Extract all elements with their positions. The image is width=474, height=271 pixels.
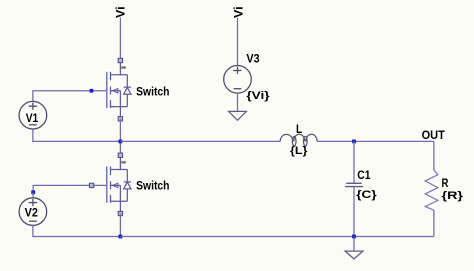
svg-text:R: R xyxy=(442,176,449,190)
ground under V3 xyxy=(229,111,247,120)
label M2 tiny instance name xyxy=(121,161,126,163)
junction on gate1 wire xyxy=(90,89,94,93)
svg-text:V1: V1 xyxy=(26,111,39,125)
pin box M2 drain xyxy=(118,153,122,157)
junction at bottom rail under C1 xyxy=(352,235,356,239)
wire: switch node to inductor xyxy=(120,140,280,142)
wire: inductor to OUT corner xyxy=(317,140,434,142)
pin box M1 drain xyxy=(118,58,122,62)
junction at C1 top node xyxy=(352,140,356,144)
pin box M1 source xyxy=(118,117,122,121)
wire: OUT node down from C1 junction xyxy=(353,141,355,183)
svg-text:{Vi}: {Vi} xyxy=(246,90,270,102)
svg-text:Vi: Vi xyxy=(231,6,245,18)
wire: V2 minus down to bottom rail xyxy=(33,225,121,236)
svg-text:{L}: {L} xyxy=(290,145,308,157)
wire: V2 gate wire xyxy=(33,185,107,192)
wire: bottom rail xyxy=(120,236,434,238)
wire: V1 gate wire xyxy=(33,91,107,102)
transistor M1 (Switch, top NMOS with body diode) xyxy=(107,61,131,119)
junction at V2 plus pin xyxy=(31,190,35,194)
svg-text:{C}: {C} xyxy=(356,189,377,201)
wire: V3 minus down to ground xyxy=(237,93,239,111)
svg-text:C1: C1 xyxy=(357,168,370,182)
voltage source V3 xyxy=(224,66,252,94)
voltage source V1 xyxy=(19,101,47,129)
pin box on gate2 wire xyxy=(89,183,93,187)
wire: OUT corner down to resistor xyxy=(433,141,435,170)
svg-text:Vi: Vi xyxy=(114,6,128,18)
wire: V1 minus down and right to switch node xyxy=(33,129,121,141)
resistor R xyxy=(425,170,438,210)
wire: ground stub under bottom rail xyxy=(353,237,355,252)
svg-text:{R}: {R} xyxy=(442,190,464,202)
svg-text:V3: V3 xyxy=(246,52,260,66)
junction at bottom rail under M2 xyxy=(119,235,123,239)
capacitor C1 xyxy=(345,183,363,186)
inductor L xyxy=(280,134,317,146)
pin box M2 source xyxy=(118,211,122,215)
svg-text:Switch: Switch xyxy=(136,84,169,98)
junction at switch node xyxy=(119,140,123,144)
transistor M2 (Switch, bottom NMOS with body diode) xyxy=(107,155,131,213)
wire: M2 source down to bottom rail xyxy=(119,214,121,237)
ground under bottom rail xyxy=(345,251,363,259)
svg-text:V2: V2 xyxy=(25,205,39,219)
wire: Vi rail down to V3 plus xyxy=(237,18,239,66)
wire: V2 plus pin stub xyxy=(32,192,34,198)
svg-text:Switch: Switch xyxy=(136,179,169,193)
label M1 tiny instance name xyxy=(121,66,126,68)
wire: M1 source to M2 drain (switch node vertical) xyxy=(119,119,121,155)
wire: C1 bottom to bottom rail xyxy=(353,187,355,237)
wire: Vi rail down to M1 drain xyxy=(119,18,121,61)
svg-text:L: L xyxy=(296,122,302,136)
voltage source V2 xyxy=(19,198,47,226)
wire: resistor bottom to bottom rail xyxy=(433,210,435,236)
svg-text:OUT: OUT xyxy=(422,128,446,142)
